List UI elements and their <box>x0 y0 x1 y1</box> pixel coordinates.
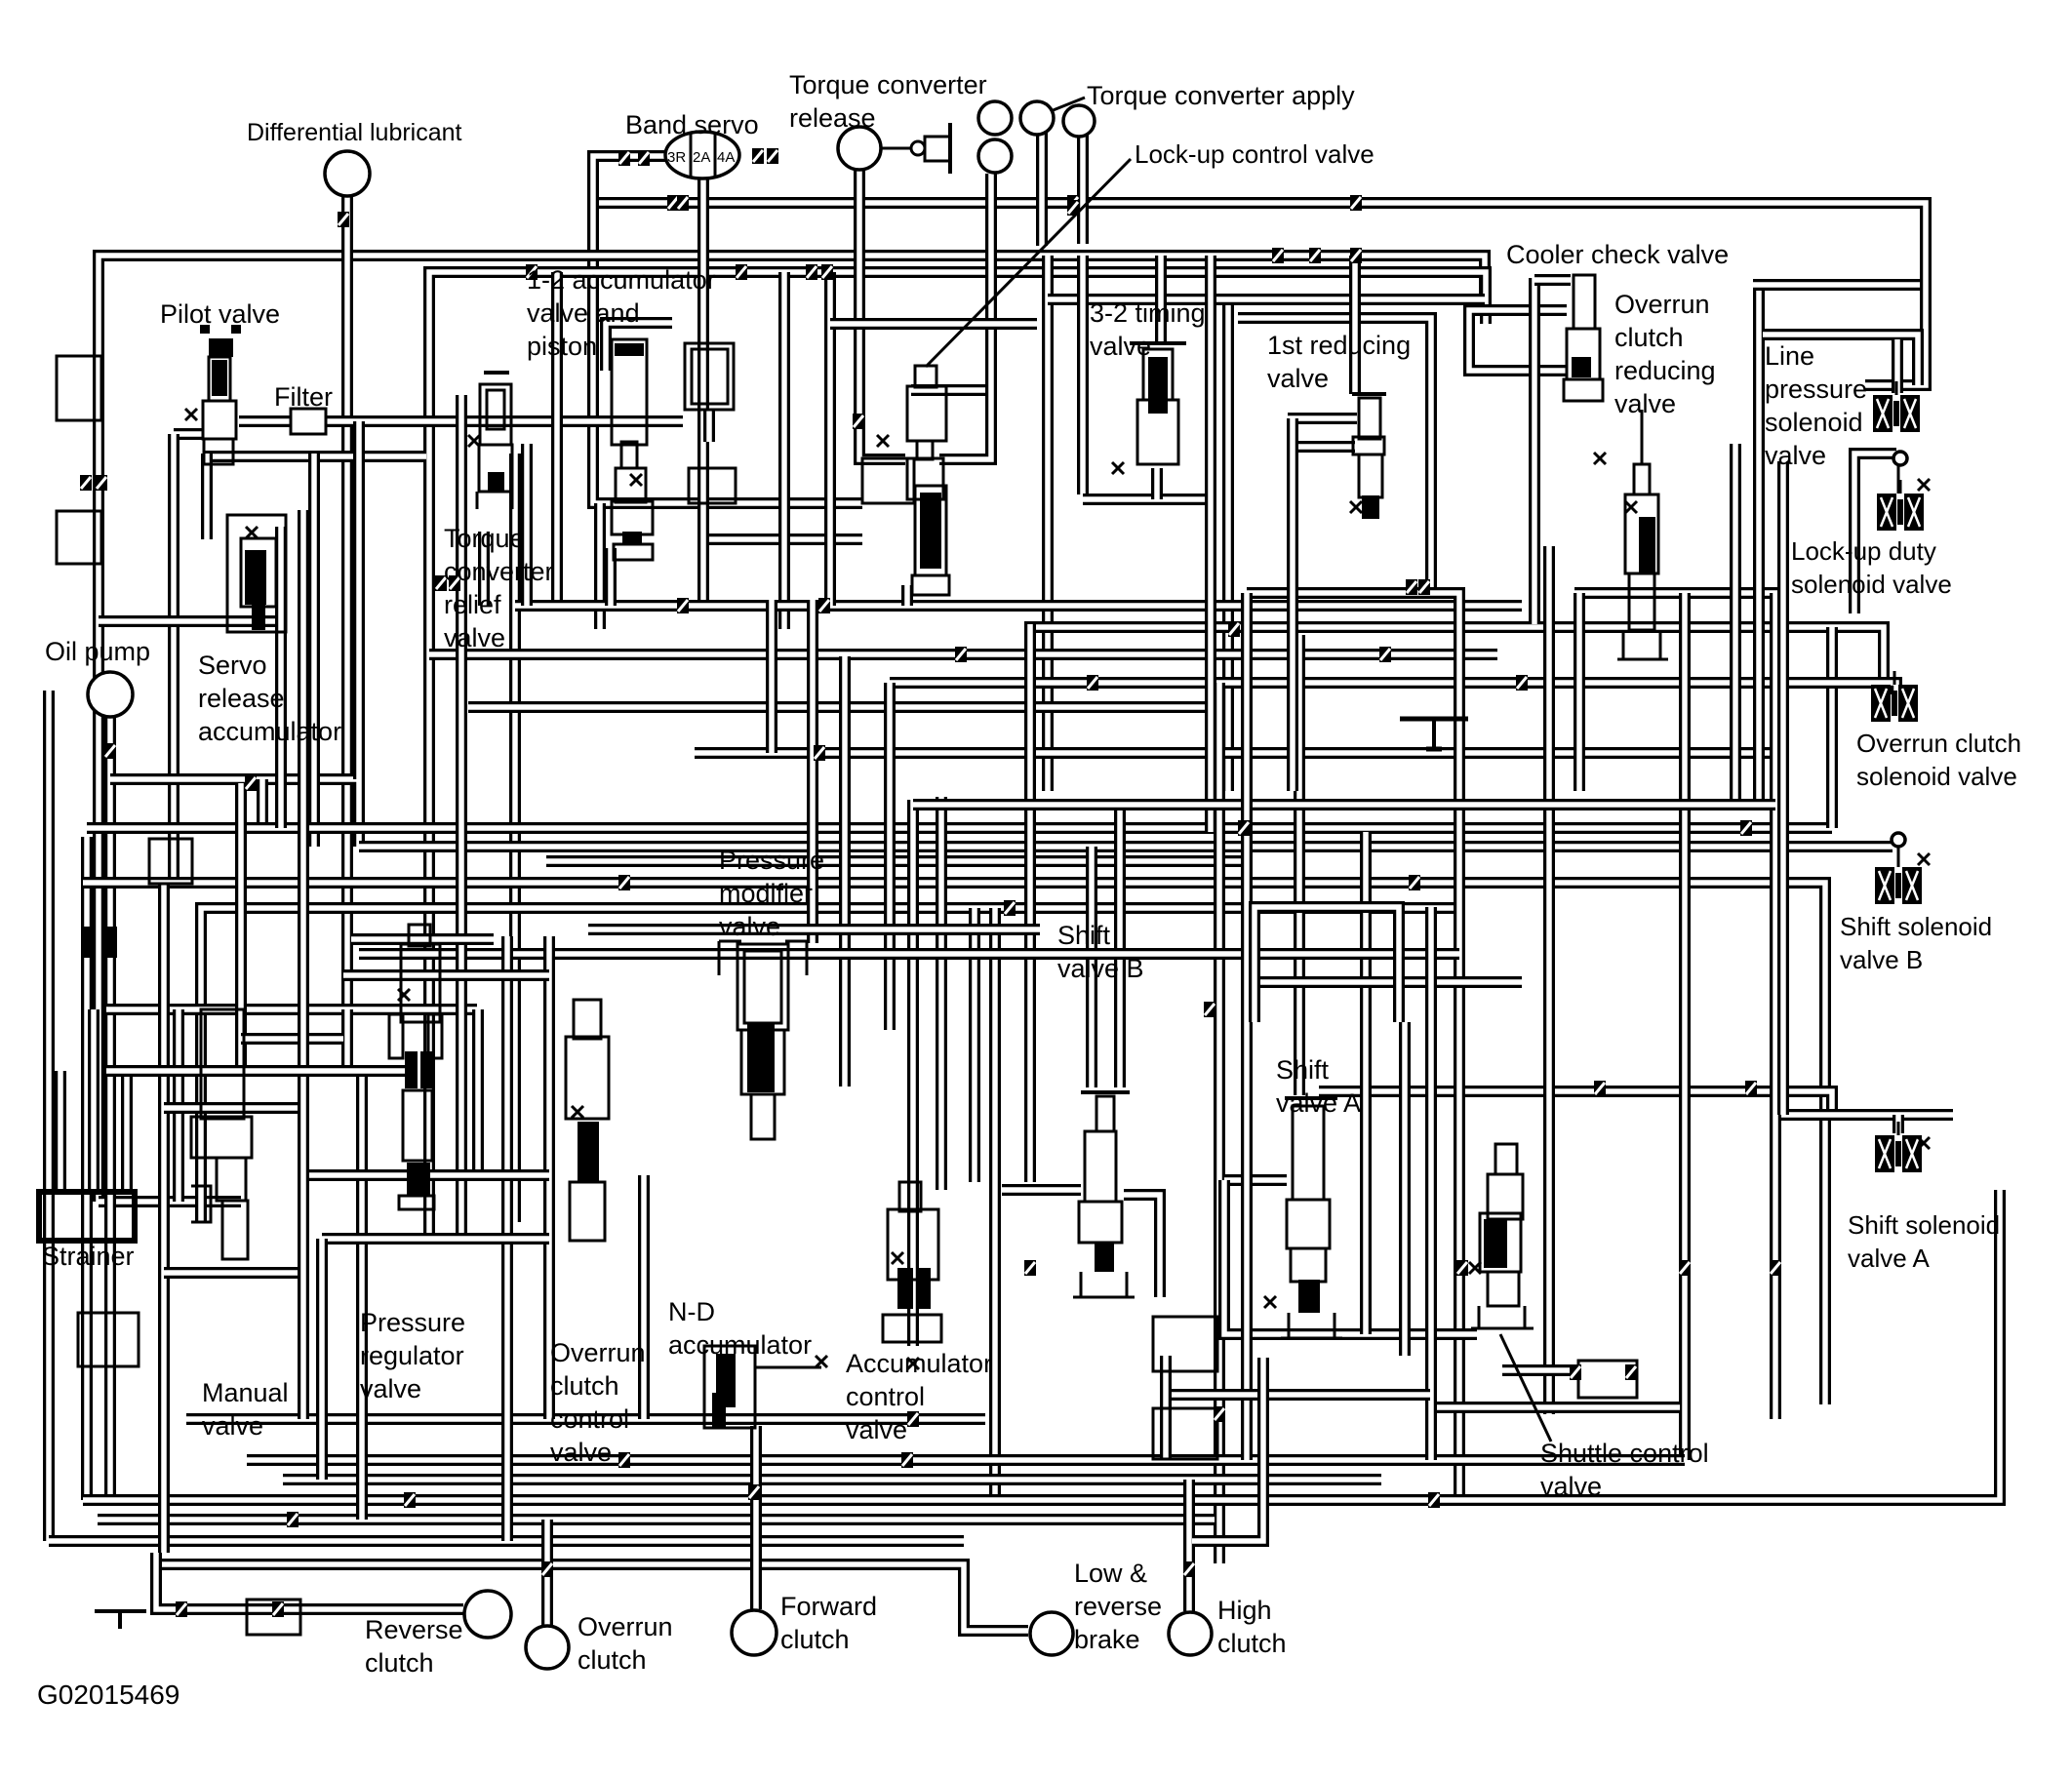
junction mark <box>80 475 92 491</box>
wire 3-2 to cooler link vertical <box>1222 299 1234 791</box>
shift valve B leg left <box>1080 1272 1083 1297</box>
wire differential lubricant drop <box>341 196 353 1009</box>
check box lower left <box>57 511 101 564</box>
wire regulator loop v330 <box>316 1239 328 1480</box>
wire 1st reducing feed lower <box>1295 441 1355 453</box>
pressure modifier valve sleeve <box>737 944 788 1030</box>
shift solenoid B check ball <box>1892 833 1905 847</box>
junction mark <box>1272 248 1284 263</box>
wire bottom bus y1580 <box>49 1535 964 1547</box>
wire right bus y1119 <box>1319 1091 1832 1115</box>
servo release accumulator body <box>227 515 286 632</box>
exhaust x mark <box>246 527 258 538</box>
wire shift valve A feed <box>1294 635 1305 1095</box>
line pressure solenoid valve <box>1873 381 1920 432</box>
wire pilot valve filter line <box>239 415 683 427</box>
cooler check valve core <box>1572 357 1591 377</box>
port torque converter release <box>838 127 881 170</box>
port overrun clutch <box>526 1626 569 1669</box>
junction mark <box>338 212 349 227</box>
servo release accumulator rod <box>252 595 265 630</box>
wire bus y825 <box>913 799 1775 810</box>
wire servo accumulator bus y637 <box>99 615 282 627</box>
overrun clutch control valve lower <box>570 1182 605 1241</box>
wire vertical x1619 <box>1574 593 1585 791</box>
wire strainer riser 2 <box>88 1009 100 1192</box>
shift valve A top bar <box>1285 1096 1337 1100</box>
cooler check valve neck <box>1574 275 1595 329</box>
wire regulator area h1000 <box>343 969 549 981</box>
exhaust tee left <box>95 1609 146 1613</box>
wire torque apply link <box>911 384 991 396</box>
wire 1-2 accumulator box left <box>551 272 563 606</box>
wire vertical x1779 <box>1730 444 1741 805</box>
wire 3-2 timing box bottom <box>1083 494 1206 505</box>
wire main bus y700 to overrun solenoid <box>890 683 1896 694</box>
wire vertical x912 <box>884 683 896 1030</box>
wire 1-2 accumulator box right <box>778 272 790 629</box>
exhaust x mark <box>185 409 197 420</box>
N-D accumulator rod <box>712 1393 726 1428</box>
svg-text:Pilot valve: Pilot valve <box>160 299 280 329</box>
shift valve A lower <box>1291 1248 1326 1282</box>
overrun clutch reducing valve body <box>1625 494 1658 573</box>
junction mark <box>767 148 778 164</box>
shuttle control valve sleeve <box>1480 1213 1521 1272</box>
wire main bus y905 <box>83 883 1825 1404</box>
wire regulator area v563 <box>543 936 555 1419</box>
shuttle control valve body <box>1488 1174 1523 1219</box>
pressure modifier valve bracket left <box>718 941 721 975</box>
port low and reverse brake <box>1030 1612 1073 1655</box>
lock-up valve left box <box>862 458 914 503</box>
wire main bus y849 <box>87 822 1832 834</box>
wire regulator loop h1270 <box>322 1233 549 1245</box>
manual valve step <box>191 1117 252 1158</box>
exhaust tee right stem <box>1432 719 1436 751</box>
svg-text:Filter: Filter <box>274 382 333 412</box>
wire lock-up valve left feed <box>824 272 836 606</box>
wire bottom bus y1538 <box>83 1190 2000 1500</box>
lock-up control valve mid neck <box>917 441 933 459</box>
junction mark <box>667 195 679 211</box>
accumulator control valve body <box>888 1209 938 1280</box>
svg-text:Oil pump: Oil pump <box>45 637 150 666</box>
wire bus y725 <box>468 701 1219 713</box>
manual valve neck <box>217 1158 246 1201</box>
overrun reducing stem <box>1641 410 1644 464</box>
wire vertical x833 <box>807 600 818 943</box>
wire vertical x1400 <box>1360 832 1372 1334</box>
3-2 timing valve core <box>1148 357 1168 414</box>
lock-up control valve lower body <box>907 458 943 499</box>
wire manual valve area v247 <box>235 783 247 1071</box>
shift valve A foot <box>1281 1337 1342 1340</box>
shift valve A mid <box>1287 1200 1330 1248</box>
junction mark <box>907 1411 919 1427</box>
pressure modifier valve bracket top left <box>719 940 741 943</box>
shift valve B mid <box>1079 1202 1122 1243</box>
shift valve B core <box>1095 1243 1114 1272</box>
wire diff lubricant extension <box>341 1009 353 1071</box>
junction mark <box>404 1492 416 1508</box>
junction mark <box>638 150 650 166</box>
overrun clutch reducing valve core <box>1639 517 1655 573</box>
junction mark <box>955 647 967 662</box>
pilot valve cap <box>209 338 233 357</box>
manual valve hook detail <box>191 1186 211 1222</box>
leader lock-up control valve <box>926 159 1131 367</box>
shuttle control valve side box <box>1578 1361 1637 1398</box>
wire vertical x936 to N-D accumulator <box>907 800 919 1346</box>
wire pilot valve lower line <box>204 451 426 462</box>
wire oil pump branch corner <box>257 779 268 828</box>
junction mark <box>1087 675 1098 691</box>
box right of shift valve B lower <box>1153 1408 1217 1459</box>
junction mark <box>104 743 116 759</box>
overrun clutch control valve body <box>566 1037 609 1119</box>
junction mark <box>1740 820 1752 836</box>
wire oil pump branch <box>110 779 359 847</box>
svg-text:Torque converter apply: Torque converter apply <box>1087 81 1355 110</box>
exhaust x mark <box>1112 462 1124 474</box>
wire shift valve A box v1440 <box>1399 1022 1411 1356</box>
pilot valve bottom <box>204 439 233 464</box>
wire forward clutch drop <box>750 1426 762 1609</box>
wire band servo drop <box>697 178 709 605</box>
junction mark <box>1428 1492 1440 1508</box>
junction mark <box>1625 1364 1637 1380</box>
overrun clutch control valve core <box>578 1122 599 1182</box>
wire cooler check valve loop <box>1469 310 1567 371</box>
junction mark <box>618 875 630 890</box>
check valve blob left a <box>82 927 96 958</box>
wire 3-2 timing box left side <box>1077 256 1089 494</box>
wire 1st reducing feed left <box>1288 413 1357 424</box>
junction mark <box>748 1484 760 1500</box>
wire box above shift valve A <box>1255 907 1399 1022</box>
torque relief top bar <box>484 371 509 375</box>
lock-up duty solenoid valve <box>1877 480 1924 531</box>
junction mark <box>541 1561 553 1577</box>
junction mark <box>618 150 630 166</box>
junction mark <box>449 575 460 591</box>
torque converter release piston symbol <box>911 123 950 174</box>
junction mark <box>287 1512 299 1527</box>
wire torque column drop <box>939 174 991 459</box>
shift valve B leg right <box>1126 1272 1129 1297</box>
lock-up control valve core <box>920 493 941 569</box>
wire bottom bus y1497 <box>247 1454 1685 1466</box>
junction mark <box>814 745 825 761</box>
wire top bus y208 and right corner <box>593 203 1926 385</box>
wire overrun clutch drop <box>541 1520 553 1625</box>
exhaust x mark <box>1469 1262 1481 1274</box>
junction mark <box>1183 1561 1195 1577</box>
lock-up control valve body <box>907 386 946 441</box>
lock-up control valve neck <box>915 366 936 387</box>
wire left frame bottom stub <box>99 1196 241 1207</box>
junction mark <box>176 1601 187 1617</box>
junction mark <box>1350 195 1362 211</box>
junction mark <box>853 414 864 429</box>
wire manual area h1305 <box>164 1267 302 1279</box>
wire cooler check long vertical <box>1529 278 1540 624</box>
wire servo release accumulator drop <box>275 527 287 828</box>
wire vertical x1499 <box>1247 593 1459 1498</box>
wire torque relief left pipe <box>456 395 467 1237</box>
junction mark <box>1594 1081 1606 1096</box>
wire 1-2 loop drop b <box>594 503 606 629</box>
pressure modifier valve lower <box>741 1030 784 1094</box>
cooler check valve bottom <box>1564 379 1603 401</box>
1st reducing valve body <box>1359 398 1380 439</box>
wire 3-2 timing box right side <box>1205 256 1216 832</box>
lock-up control valve bottom <box>912 575 949 595</box>
wire shift solenoid A feed <box>1776 1109 1953 1121</box>
exhaust x mark <box>907 1358 919 1369</box>
lock-up duty check ball <box>1893 452 1907 465</box>
junction mark <box>752 148 764 164</box>
wire bus y1007 <box>1255 976 1522 988</box>
junction mark <box>1350 248 1362 263</box>
shuttle foot <box>1471 1327 1534 1330</box>
wire regulator area v520 <box>501 936 513 1541</box>
wire shift valve B feed left <box>1086 847 1097 1087</box>
port oil pump <box>88 672 133 717</box>
wire bus y883 <box>546 855 1241 867</box>
check box upper left <box>57 356 101 420</box>
wire 1-2 accumulator chamber stub <box>703 410 715 442</box>
1-2 accumulator valve neck <box>621 442 637 468</box>
shift valve A leg left <box>1288 1313 1291 1338</box>
wire regulator area h953 right <box>588 924 1040 935</box>
shift solenoid B ball stem <box>1897 847 1900 867</box>
wire manual area v310 <box>298 510 309 1419</box>
1-2 accumulator right chamber inner <box>692 349 728 404</box>
svg-text:4A: 4A <box>717 149 735 166</box>
exhaust tee left stem <box>118 1611 122 1629</box>
1-2 accumulator valve lower <box>612 501 653 534</box>
wire vertical x178 <box>168 434 179 883</box>
check valve blob left b <box>103 927 117 958</box>
junction mark <box>526 264 538 280</box>
wire shift valve B right link <box>1124 1195 1160 1297</box>
1-2 accumulator valve bracket <box>614 544 653 560</box>
pressure regulator valve core b <box>420 1051 432 1088</box>
port high clutch <box>1169 1612 1212 1655</box>
pressure modifier valve core <box>747 1022 775 1092</box>
wire regulator area h960 left <box>351 933 494 945</box>
pressure modifier valve inner <box>744 951 781 1023</box>
wire inner right bus y343 <box>1763 335 1918 385</box>
junction mark <box>818 598 830 613</box>
junction mark <box>1418 579 1430 595</box>
1-2 accumulator valve body <box>616 468 646 502</box>
wire top right inner box <box>1753 279 1920 291</box>
pressure modifier valve bottom <box>751 1094 775 1139</box>
port torque converter b <box>1020 101 1054 135</box>
wire vertical x866 <box>839 656 851 1087</box>
wire high clutch elbow <box>1192 1358 1263 1541</box>
junction mark <box>1679 1260 1691 1276</box>
wire main bus y671 <box>429 649 1497 660</box>
leader shuttle control valve <box>1500 1334 1551 1442</box>
wire bus y1035 <box>106 1004 477 1015</box>
pressure regulator valve wing left <box>389 1014 403 1058</box>
shuttle control valve neck <box>1495 1144 1517 1174</box>
wire high clutch upper link <box>1160 1356 1172 1460</box>
junction mark <box>1406 579 1417 595</box>
3-2 timing valve lower <box>1137 400 1178 464</box>
exhaust x mark <box>892 1252 903 1264</box>
torque converter relief valve core <box>488 472 504 492</box>
junction mark <box>736 264 747 280</box>
wire lock-up valve lower feed <box>703 533 862 545</box>
shift valve B top bar <box>1081 1090 1130 1094</box>
wire strainer riser 3 <box>121 1071 133 1192</box>
shift solenoid valve B <box>1875 853 1922 904</box>
svg-text:Band servo: Band servo <box>625 110 759 139</box>
lock-up duty ball stem <box>1897 466 1900 494</box>
wire 3-2 timing valve bottom link <box>1151 468 1163 499</box>
shift valve A leg right <box>1334 1313 1336 1338</box>
wire left inner vertical <box>81 837 93 1500</box>
pilot valve lower body <box>203 401 236 439</box>
wire bus y772 <box>695 747 1779 759</box>
cooler check valve body <box>1567 329 1600 379</box>
port torque converter c <box>978 139 1012 173</box>
wire shift valve A left link <box>1224 1174 1287 1186</box>
pressure modifier valve bracket right <box>806 941 809 975</box>
wire bottom bus y1558 <box>98 1514 1215 1525</box>
junction mark <box>1204 1002 1215 1017</box>
shift valve B neck <box>1096 1096 1114 1131</box>
torque relief leg left <box>476 492 479 509</box>
wire third top bus and mid vertical <box>429 272 1486 1237</box>
wire left outer vertical <box>43 691 55 1541</box>
wire regulator area v490 <box>472 1009 484 1175</box>
wire 1st reducing left vertical <box>1287 418 1298 791</box>
1st reducing valve core lower <box>1362 495 1379 519</box>
junction mark <box>96 475 107 491</box>
wire vertical x1803 upper <box>1753 285 1765 805</box>
junction mark <box>1228 621 1240 637</box>
wire overrun ctl area v660 <box>638 1175 650 1419</box>
wire lock-up valve bottom drop <box>901 585 913 606</box>
overrun reducing leg left <box>1622 630 1625 659</box>
band servo chamber <box>665 132 739 178</box>
exhaust tee right <box>1400 717 1468 722</box>
junction mark <box>1456 1260 1468 1276</box>
strainer body <box>39 1192 135 1241</box>
junction mark <box>1745 1081 1757 1096</box>
svg-text:Cooler check valve: Cooler check valve <box>1506 240 1729 269</box>
overrun reducing foot <box>1617 658 1668 661</box>
wire vertical x1588 <box>1543 546 1555 1414</box>
wire right column x1828 <box>1777 461 1789 1115</box>
N-D accumulator body <box>704 1346 755 1428</box>
wire bus y608 right <box>1574 587 1783 599</box>
exhaust x mark <box>398 989 410 1001</box>
wire vertical x1020 <box>989 908 1001 1500</box>
wire servo release accumulator top link <box>201 454 213 539</box>
junction mark <box>435 575 447 591</box>
wire line pressure solenoid stem <box>1892 339 1903 393</box>
3-2 timing valve top bar <box>1130 341 1186 345</box>
pilot valve spring left <box>200 325 210 334</box>
wire 1-2 accumulator top bracket <box>606 323 672 371</box>
wire shift valve A to shuttle <box>1224 1180 1477 1334</box>
wire high clutch drop <box>1183 1480 1195 1611</box>
exhaust x mark <box>1918 479 1930 491</box>
port torque converter apply <box>1063 105 1095 137</box>
accumulator control valve core b <box>917 1268 931 1309</box>
torque relief leg right <box>511 492 514 509</box>
shift solenoid valve A <box>1875 1122 1922 1172</box>
1-2 accumulator piston <box>615 343 644 356</box>
exhaust x mark <box>1918 1137 1930 1149</box>
wire low reverse feed <box>156 1564 1028 1631</box>
wire pilot valve left stub <box>174 428 203 440</box>
pressure modifier valve bracket top right <box>785 940 807 943</box>
wire torque converter release drop <box>859 170 905 459</box>
pressure regulator valve bottom <box>399 1196 434 1209</box>
wire manual valve area v183 <box>173 1009 184 1202</box>
torque converter release piston line <box>881 147 935 150</box>
pressure regulator valve body <box>401 944 440 1022</box>
junction mark <box>1516 675 1528 691</box>
wire overrun solenoid riser <box>1826 627 1838 828</box>
leader torque converter apply <box>1046 98 1085 113</box>
wire 3-2 timing left vertical <box>1042 256 1054 791</box>
manual valve lower hook <box>222 1201 248 1259</box>
wire vertical x322 <box>308 454 320 847</box>
shuttle leg left <box>1478 1306 1481 1328</box>
pilot valve body <box>209 357 230 401</box>
shift valve A core <box>1298 1280 1320 1313</box>
wire vertical x791 <box>766 600 777 753</box>
pilot valve core <box>212 360 227 396</box>
junction mark <box>677 195 689 211</box>
junction mark <box>901 1452 913 1468</box>
N-D accumulator stem <box>755 1366 821 1369</box>
junction mark <box>1024 1260 1036 1276</box>
1st reducing valve mid <box>1353 437 1384 454</box>
junction mark <box>1004 900 1016 916</box>
svg-text:Lock-up control valve: Lock-up control valve <box>1135 139 1375 169</box>
wire 3-2 to cooler second link <box>1238 318 1431 597</box>
exhaust x mark <box>816 1356 827 1367</box>
wire main bus y643 to overrun solenoid <box>1024 627 1884 683</box>
servo release accumulator step <box>241 538 276 607</box>
pressure regulator valve core lower <box>407 1163 430 1196</box>
exhaust x mark <box>1918 853 1930 865</box>
port torque converter a <box>978 101 1012 135</box>
svg-text:3R: 3R <box>667 149 686 166</box>
torque converter relief valve body <box>480 384 511 445</box>
port reverse clutch <box>464 1591 511 1638</box>
wire torque b drop <box>1036 129 1048 246</box>
wire shuttle box bottom <box>1437 1402 1680 1413</box>
shuttle control valve lower <box>1488 1272 1519 1306</box>
junction mark <box>806 264 817 280</box>
exhaust x mark <box>1594 453 1606 464</box>
svg-text:2A: 2A <box>693 149 710 166</box>
wire lock-up valve top bracket <box>830 318 1037 330</box>
wire manual area h1205 <box>302 1169 549 1181</box>
svg-text:Strainer: Strainer <box>42 1242 135 1271</box>
